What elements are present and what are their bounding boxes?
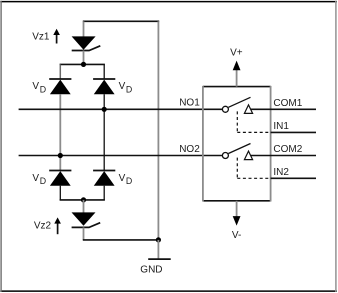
junction dot top node [81, 62, 86, 67]
label VD bottom-right [119, 173, 133, 186]
svg-text:V: V [119, 173, 126, 184]
svg-text:D: D [40, 176, 46, 186]
svg-text:COM2: COM2 [273, 144, 302, 155]
arrow up beside Vz1 [53, 29, 60, 44]
switch S2 driver triangle [244, 151, 252, 160]
diode VD top-left [49, 79, 71, 94]
dashed control line S2 horizontal [237, 177, 270, 179]
wire GND stub [157, 240, 159, 259]
analog switch box U1 [203, 86, 271, 202]
wire IN1 line [271, 131, 316, 133]
wire bottom to GND node [83, 239, 159, 241]
svg-text:V: V [119, 81, 126, 92]
switch S1 lever [228, 97, 250, 107]
junction dot NO1-middle column [102, 107, 107, 112]
wire drop to diode D2 [103, 64, 105, 79]
junction dot bottom node [81, 197, 86, 202]
diode VD top-right [93, 79, 115, 94]
power V+ arrow [233, 61, 241, 87]
diode VD bottom-left [49, 171, 71, 186]
zener Vz1 [72, 36, 101, 50]
svg-text:Vz2: Vz2 [34, 221, 52, 232]
wire middle column [103, 94, 105, 170]
power V- arrow [233, 201, 241, 226]
wire Vz2 top lead [83, 200, 85, 213]
ground bar [148, 258, 171, 260]
zener Vz2 [72, 212, 101, 227]
wire Vz1 bottom lead [83, 51, 85, 65]
svg-text:V-: V- [232, 230, 241, 241]
junction dot NO2-left column [58, 153, 63, 158]
dashed control line S1 horizontal [237, 131, 270, 133]
wire drop to diode D1 [59, 64, 61, 79]
svg-text:D: D [126, 85, 132, 95]
wire drop from diode D4 [103, 186, 105, 200]
svg-text:NO2: NO2 [179, 144, 200, 155]
label VD top-right [119, 81, 133, 94]
switch S1 contact circle [222, 106, 228, 112]
svg-text:GND: GND [140, 264, 162, 275]
svg-text:V+: V+ [230, 48, 243, 59]
wire NO1 line [19, 108, 223, 110]
svg-text:IN2: IN2 [273, 167, 289, 178]
svg-text:Vz1: Vz1 [32, 32, 50, 43]
label VD top-left [32, 81, 46, 94]
svg-text:D: D [40, 85, 46, 95]
svg-text:V: V [32, 173, 39, 184]
wire top node line [60, 63, 105, 65]
diode VD bottom-right [93, 171, 115, 186]
wire right rail to GND node [157, 21, 159, 240]
dashed control line S2 vertical [236, 158, 238, 179]
svg-text:COM1: COM1 [273, 98, 302, 109]
wire left column [59, 94, 61, 170]
junction dot GND node [156, 237, 161, 242]
wire drop from diode D3 [59, 186, 61, 200]
wire IN2 line [271, 177, 316, 179]
svg-text:IN1: IN1 [273, 121, 289, 132]
svg-text:NO1: NO1 [179, 98, 200, 109]
wire COM2 line [251, 155, 316, 157]
svg-text:D: D [126, 176, 132, 186]
arrow up beside Vz2 [54, 217, 61, 234]
svg-text:V: V [32, 81, 39, 92]
dashed control line S1 vertical [236, 111, 238, 132]
wire bottom node line [60, 199, 105, 201]
wire Vz2 bottom lead [83, 227, 85, 240]
wire Vz1 top lead [83, 21, 85, 37]
wire NO2 line [19, 155, 223, 157]
switch S2 lever [228, 144, 250, 154]
switch S2 contact circle [222, 153, 228, 159]
wire top from Vz1 to right rail [83, 20, 159, 22]
label VD bottom-left [32, 173, 46, 186]
wire COM1 line [251, 108, 316, 110]
switch S1 driver triangle [244, 105, 252, 114]
